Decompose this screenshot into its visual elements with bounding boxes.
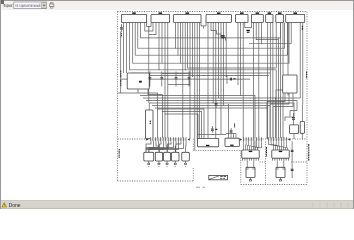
net divider dashed 6 bbox=[291, 161, 307, 163]
transformer TV1 body bbox=[242, 150, 259, 158]
status warning icon bbox=[2, 203, 6, 207]
net label left border low bbox=[119, 149, 120, 158]
capacitor C13 bbox=[291, 150, 294, 152]
wire DD3.10 vertical bbox=[196, 23, 198, 140]
wire right elbow stack1 bbox=[290, 111, 297, 116]
wire bus low4 bbox=[146, 101, 297, 111]
combo dropdown button bbox=[42, 2, 47, 8]
wire A1 bottom elbow bbox=[148, 89, 162, 139]
wire bus mid5 bbox=[120, 78, 250, 80]
net label left border mid bbox=[120, 71, 121, 79]
wire bus low3 bbox=[143, 97, 300, 99]
transformer TV1 label bbox=[249, 151, 252, 152]
wire from DD1-DD2 bridge bbox=[148, 26, 150, 30]
wire DD4.8 vertical bbox=[225, 23, 227, 77]
module A4 box bbox=[225, 138, 239, 146]
wire DD1.2 to A1 bbox=[126, 23, 128, 74]
arrow X2 left bbox=[240, 138, 242, 140]
connector X2 pin row bbox=[243, 137, 262, 141]
wire junction mid4 bbox=[203, 75, 204, 76]
net label left top bbox=[121, 33, 122, 38]
wire junction DD4.7 bbox=[223, 105, 224, 106]
wire DD3.5 vertical bbox=[184, 23, 186, 70]
wire DD6.3 vertical bbox=[258, 23, 260, 140]
wire DD9.1 vertical bbox=[287, 23, 289, 96]
IC DD4 bbox=[206, 14, 231, 22]
transformer TV2 label bbox=[279, 151, 282, 152]
label near C6 bbox=[233, 78, 235, 79]
wire riser branch 2 bbox=[162, 112, 201, 139]
wire C8 lead bbox=[293, 113, 295, 125]
capacitor C14 bbox=[291, 169, 294, 171]
wire cap loop2 bbox=[168, 81, 190, 85]
wire DD7.1 vertical bbox=[267, 23, 269, 140]
label below DD4 line2 bbox=[222, 37, 225, 38]
wire bus to A3 bbox=[197, 134, 226, 136]
wire DD8.3 vertical bbox=[282, 23, 284, 140]
plug XP1 pin pads bbox=[247, 168, 255, 169]
wire bus mid4 bbox=[134, 75, 269, 77]
svg-text:Формат:: Формат: bbox=[3, 3, 13, 8]
wire riser branch 1 bbox=[158, 109, 204, 139]
IC DD8 bbox=[276, 14, 284, 22]
sheet dashed border top bbox=[118, 11, 308, 13]
wire A4 bus bbox=[226, 133, 236, 135]
status bar top edge bbox=[1, 200, 353, 202]
wire junction low7 bbox=[267, 107, 268, 108]
wire right vertical4 bbox=[275, 97, 277, 139]
wire TV2 to plug a bbox=[276, 161, 278, 168]
net label left border mid2 bbox=[120, 80, 121, 86]
IC DD9 label bbox=[293, 12, 297, 14]
plug XP2 bottom pad bbox=[279, 180, 281, 181]
sheet footer marks bbox=[196, 186, 205, 189]
capacitor C11 bbox=[230, 130, 233, 132]
wire X1 pin3 branch bbox=[156, 141, 159, 152]
IC DD3 label bbox=[186, 12, 190, 14]
wire X1 pin9 branch bbox=[168, 141, 172, 152]
wire junction DD6 h2 bbox=[261, 43, 262, 44]
wire riser branch 3 bbox=[165, 114, 198, 139]
connector X1 pin row bbox=[150, 137, 187, 141]
wire C7 leads bbox=[215, 100, 217, 108]
IC DD4 label bbox=[217, 12, 221, 14]
module A3 box bbox=[198, 139, 219, 147]
net divider dashed 1 bbox=[118, 138, 148, 140]
wire X1 pin15 branch bbox=[185, 141, 188, 152]
wire A2 elbows below3 bbox=[273, 93, 293, 107]
wire junction DD3.8 bbox=[192, 76, 193, 77]
wire DD3.9 vertical bbox=[194, 23, 196, 151]
module A3 label bbox=[206, 145, 209, 146]
component V2 bottom pin bbox=[158, 161, 160, 163]
wire DD3.1 vertical bbox=[175, 23, 177, 49]
wire C3 leads bbox=[175, 72, 177, 87]
wire junction DD4.3 bbox=[213, 102, 214, 103]
wire DD3.3 vertical bbox=[179, 23, 181, 64]
IC DD9 bbox=[286, 14, 305, 22]
wire bridge drop bbox=[148, 35, 150, 103]
module boundary bottom-left bbox=[118, 180, 194, 182]
wire DD3.7 vertical bbox=[189, 23, 191, 140]
wire X1 pin12 branch bbox=[146, 141, 179, 152]
component V5 bottom pin bbox=[185, 161, 187, 163]
wire DD5.3 vertical bbox=[242, 23, 244, 140]
wire C12 lead bbox=[211, 126, 213, 133]
wire X1 pin2 branch bbox=[149, 141, 154, 152]
wire stub under DD3-DD4 bbox=[203, 26, 205, 29]
wire junction riser3 bbox=[164, 113, 165, 114]
IC DD3 bbox=[174, 14, 201, 22]
wire C11 lead bbox=[230, 128, 232, 134]
wire right elbow stack2 bbox=[285, 117, 294, 121]
IC DD5 label bbox=[240, 12, 244, 14]
wire X1 pin7 branch bbox=[166, 141, 167, 152]
IC DD2 label bbox=[159, 12, 163, 14]
IC DD8 label bbox=[278, 12, 282, 14]
wire junction DD3.2 bbox=[177, 55, 178, 56]
pin numbers right of DD9 bbox=[302, 26, 303, 30]
wire junction riser2 bbox=[162, 111, 163, 112]
capacitor C1 bbox=[149, 77, 152, 79]
module A1 box bbox=[127, 73, 149, 89]
wire DD1.6 nested bus bbox=[138, 23, 285, 49]
label under DD5 notch line2 bbox=[247, 32, 250, 33]
component V1 bottom pin bbox=[148, 161, 150, 163]
net label right border low bbox=[308, 144, 309, 161]
wire cap loop bbox=[162, 73, 191, 75]
wire left border net bbox=[120, 32, 122, 94]
wire bridge DD5 notch bbox=[245, 22, 252, 28]
label under DD5 notch bbox=[246, 30, 250, 31]
module A1 label bbox=[139, 81, 142, 83]
wire DD9.4 vertical bbox=[302, 23, 304, 105]
capacitor C4 bbox=[188, 77, 191, 79]
arrow X3 right bbox=[288, 138, 290, 140]
wire junction DD2.3 bbox=[158, 69, 159, 70]
wire C9 bottom lead bbox=[293, 134, 295, 140]
capacitor C6 horizontal bbox=[230, 78, 232, 81]
wire DD7.3 vertical bbox=[272, 23, 274, 140]
wire DD7.2 vertical bbox=[269, 23, 271, 140]
component V5 bottom pad bbox=[185, 163, 187, 164]
sheet dashed border right bbox=[306, 12, 308, 185]
wire DD4.3 vertical bbox=[212, 23, 214, 104]
plug XP1 bottom pad bbox=[249, 180, 251, 181]
wire bus DD6 h2 bbox=[249, 43, 291, 45]
net divider dashed step vertical bbox=[192, 139, 194, 151]
wire C4 leads bbox=[188, 72, 190, 87]
wire DD4.4 vertical bbox=[215, 23, 217, 139]
wire DD5.2 vertical bbox=[240, 23, 242, 97]
wire X1 pin6 branch bbox=[149, 141, 164, 152]
wire bus low2 bbox=[140, 96, 255, 151]
component V1 bottom pad bbox=[148, 163, 150, 164]
wire T1 top lead bbox=[148, 103, 150, 110]
module A4 label bbox=[230, 145, 233, 146]
toolbar corner grip bbox=[1, 0, 4, 4]
variable resistor diagonal bbox=[209, 176, 219, 180]
wire right vertical1 bbox=[266, 102, 268, 140]
wire DD2.5 long vertical bbox=[164, 23, 166, 140]
capacitor C3 bbox=[175, 77, 178, 79]
wire A2 nested elbow1 bbox=[276, 90, 283, 97]
wire junction DD3.3 bbox=[180, 63, 181, 64]
plug XP2 body bbox=[276, 167, 285, 177]
module A2 box bbox=[283, 75, 297, 93]
wire X1 pin5 branch bbox=[160, 141, 162, 152]
component V4 bottom pin bbox=[174, 161, 176, 163]
sheet dashed border left bbox=[117, 12, 119, 182]
wire DD1.3 nested bus bbox=[130, 23, 277, 140]
plug XP1 body bbox=[246, 167, 255, 177]
wire DD6.4 vertical bbox=[260, 23, 262, 44]
wire DD4.6 vertical bbox=[220, 23, 222, 135]
wire X1 pin10 branch bbox=[149, 141, 174, 152]
module T1 tall box bbox=[145, 110, 153, 139]
wire DD6.1 vertical bbox=[253, 23, 255, 140]
wire bridge DD3-DD4 bbox=[201, 22, 206, 26]
IC DD6 bbox=[251, 14, 263, 22]
wire X1 pin11 branch bbox=[174, 141, 177, 152]
wire DD1.7 nested bus bbox=[141, 23, 281, 38]
wire A4 pin long bbox=[228, 104, 230, 138]
net label divider C bbox=[266, 147, 267, 157]
wire X1 pin14 branch bbox=[149, 141, 184, 152]
component V4 box bbox=[172, 152, 180, 161]
component C9 box bbox=[290, 125, 299, 134]
wire DD6.2 vertical bbox=[255, 23, 257, 40]
wire DD3.11 vertical bbox=[199, 23, 201, 139]
format combo box bbox=[14, 2, 47, 9]
IC DD7 label bbox=[268, 12, 272, 14]
wire bus DD6 h1 bbox=[256, 39, 278, 41]
wire DD2.6 long vertical bbox=[167, 23, 169, 140]
wire DD4 staircase bbox=[211, 23, 226, 41]
wire X1 pin1 branch bbox=[146, 141, 151, 152]
wire DD9.2 vertical bbox=[290, 23, 292, 44]
wire DD2.3 vertical bbox=[158, 23, 160, 70]
wire junction DD4.8 bbox=[226, 76, 227, 77]
wire DD3.4 vertical bbox=[182, 23, 184, 140]
wire TV1 primary leads bbox=[244, 141, 262, 150]
wire C10 bottom lead bbox=[301, 133, 303, 139]
net divider dashed 2 bbox=[193, 149, 241, 151]
wire DD2.4 vertical bbox=[161, 23, 163, 64]
arrow X1 left bbox=[146, 138, 148, 140]
net label right border mid bbox=[306, 72, 307, 79]
component V5 box bbox=[182, 152, 190, 161]
component V2 box bbox=[155, 152, 162, 161]
wire right vertical2 bbox=[269, 104, 271, 139]
transformer TV2 bottom pins bbox=[273, 158, 289, 160]
toolbar printer icon bbox=[50, 3, 54, 9]
combo dropdown arrow bbox=[43, 5, 45, 7]
wire junction under bridge bbox=[148, 26, 149, 27]
variable resistor symbol bbox=[209, 175, 228, 179]
net label mid bbox=[234, 124, 235, 128]
wire XP2 bottom stub bbox=[280, 178, 282, 180]
svg-text:А4 горизонтальный: А4 горизонтальный bbox=[15, 3, 41, 8]
status bar separators bbox=[313, 202, 348, 207]
label near C12 bbox=[215, 129, 217, 130]
wire bus mid3 bbox=[131, 72, 270, 74]
wire right margin vertical bbox=[291, 141, 293, 178]
capacitor C5 bbox=[120, 27, 123, 29]
wire DD3.2 vertical bbox=[177, 23, 179, 56]
wire bus low6 bbox=[152, 105, 270, 107]
IC DD5 bbox=[236, 14, 248, 22]
variable resistor text bbox=[220, 176, 226, 179]
IC DD7 bbox=[266, 14, 273, 22]
component V4 bottom pad bbox=[174, 163, 176, 164]
capacitor C7 bbox=[215, 103, 218, 105]
wire A2 elbows below bbox=[267, 93, 285, 102]
wire right vertical3 bbox=[272, 107, 274, 140]
wire junction riser1 bbox=[157, 108, 158, 109]
wire junction DD2.4 bbox=[161, 63, 162, 64]
net divider dashed 4 bbox=[288, 138, 308, 140]
wire DD8.2 vertical bbox=[279, 23, 281, 140]
module boundary vertical A bbox=[192, 168, 194, 181]
wire C5 leads bbox=[120, 24, 122, 32]
wire junction DD6 h1 bbox=[256, 39, 257, 40]
wire junction DD3.1 bbox=[175, 48, 176, 49]
component V1 box bbox=[144, 152, 154, 161]
wire DD9.3 vertical bbox=[299, 23, 301, 99]
wire DD5.1 vertical bbox=[237, 23, 239, 86]
wire bridge loop to DD2 bbox=[149, 23, 156, 35]
wire A4 pins bbox=[231, 134, 236, 139]
toolbar background bbox=[0, 0, 354, 10]
wire C10 top lead bbox=[301, 105, 303, 122]
wire junction DD4.5 bbox=[218, 97, 219, 98]
wire junction bus 37.9 bbox=[278, 37, 279, 38]
wire X1 pin13 branch bbox=[176, 141, 181, 152]
wire bridge DD1-DD2 bbox=[147, 22, 151, 27]
wire bus mid2 bbox=[226, 75, 228, 84]
wire bus low7 bbox=[155, 107, 268, 109]
module boundary bottom-right bbox=[241, 184, 307, 186]
wire junction cap loop bbox=[190, 73, 191, 74]
wire DD4.1 vertical bbox=[207, 23, 209, 139]
wire TV2 to plug b bbox=[283, 161, 285, 168]
wire junction bus A3 bbox=[213, 134, 214, 135]
IC DD1 bbox=[121, 14, 146, 22]
wire DD1.5 nested bus bbox=[135, 23, 287, 56]
svg-text:Done: Done bbox=[9, 203, 21, 209]
wire junction DD3.5 bbox=[185, 69, 186, 70]
wire X1 pin4 branch bbox=[146, 141, 159, 152]
wire DD3.8 vertical bbox=[191, 23, 193, 77]
component V3 box bbox=[164, 152, 171, 161]
component C10 box bbox=[300, 122, 304, 134]
transformer TV1 bottom pins bbox=[243, 158, 259, 160]
wire DD4.7 vertical bbox=[223, 23, 225, 106]
plug XP2 pin pads bbox=[277, 168, 285, 169]
capacitor C2 bbox=[160, 77, 163, 79]
module boundary vertical B bbox=[240, 150, 242, 184]
wire bus low1 bbox=[118, 93, 158, 139]
wire A2 elbows below2 bbox=[270, 93, 289, 104]
wire drop from bus 37.9 bbox=[278, 38, 280, 139]
status bar bbox=[1, 201, 353, 209]
wire TV1 to plug b bbox=[253, 161, 255, 168]
wire DD1.1 to A1 bbox=[122, 23, 124, 74]
IC DD2 bbox=[151, 14, 170, 22]
pin numbers under V boxes bbox=[148, 165, 186, 168]
module boundary vertical C bbox=[265, 142, 267, 185]
wire TV1 to plug a bbox=[246, 161, 248, 168]
wire C1 leads bbox=[149, 72, 151, 87]
net divider dashed 5 bbox=[260, 161, 266, 163]
connector X3 pin row bbox=[268, 137, 287, 141]
wire bus low5 bbox=[149, 103, 294, 117]
net divider dashed 3 bbox=[263, 138, 269, 140]
wire XP1 bottom stub bbox=[250, 178, 252, 180]
wire A1 bottom lead bbox=[137, 89, 139, 93]
transformer TV2 body bbox=[272, 150, 289, 158]
IC DD6 label bbox=[256, 12, 260, 14]
label below DD4 bbox=[221, 35, 225, 36]
wire X1 pin8 branch bbox=[146, 141, 169, 152]
wire TV2 primary leads bbox=[269, 141, 288, 150]
wire DD1.8 loop to DD2 bbox=[145, 23, 153, 32]
component V3 bottom pad bbox=[166, 163, 168, 164]
arrow X1 right bbox=[187, 138, 189, 140]
wire DD3.6 elbow bbox=[188, 23, 277, 69]
component V2 bottom pad bbox=[158, 163, 160, 164]
IC DD1 label bbox=[132, 12, 136, 14]
wire DD1.4 nested bus bbox=[133, 23, 289, 64]
component V3 bottom pin bbox=[166, 161, 168, 163]
module T1 label bbox=[150, 121, 151, 125]
wire DD4.5 vertical bbox=[217, 23, 219, 99]
capacitor C8 polarized bbox=[292, 117, 295, 119]
wire C2 leads bbox=[161, 72, 163, 87]
capacitor C12 bbox=[211, 129, 214, 131]
